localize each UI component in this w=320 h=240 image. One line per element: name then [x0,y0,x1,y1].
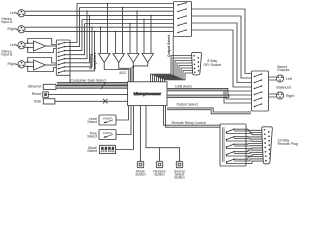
svg-text:Right: Right [8,62,16,66]
svg-text:Outputs: Outputs [277,68,290,72]
svg-text:Input B: Input B [1,52,13,56]
remote relay control bus [164,106,221,128]
wire risers from gain box to top bus [70,4,95,71]
svg-text:Button: Button [135,172,145,176]
svg-text:Remote Plug: Remote Plug [278,142,298,146]
xlr connector output left [269,75,284,82]
svg-text:Output Select: Output Select [177,103,198,107]
op-amp input B right with bypass loop [25,58,56,72]
svg-text:Right: Right [8,27,16,31]
usb audio bus [167,88,252,103]
xlr connector input A left [16,10,25,17]
svg-text:Reset: Reset [32,92,41,96]
node bus lines top [25,4,173,32]
xlr connector output right [269,92,284,99]
svg-text:Input A: Input A [1,20,13,24]
switches inside gain box [58,42,70,74]
summing amplifier 3 [128,54,140,63]
wire GPI to microprocessor [151,56,193,82]
svg-text:0-9/0-F: 0-9/0-F [103,131,113,135]
output relay switch box [252,71,269,111]
output select bus to output relays [167,108,250,114]
wire input A left - [25,14,173,16]
wire input A right + [25,26,173,28]
wire ADC inputs [104,63,148,82]
wire input A left + [25,10,173,12]
ethernet port [43,84,127,89]
time select rotary switch [99,106,131,140]
xlr connector input A right [16,26,25,33]
svg-text:Consumer Gain Select: Consumer Gain Select [71,78,106,82]
svg-text:GPI Socket: GPI Socket [203,63,221,67]
svg-text:Left: Left [286,77,292,81]
mode select dip switch [100,106,134,154]
svg-text:Amplifiers: Amplifiers [93,52,97,69]
xlr connector input B left [16,42,25,49]
GPI d-sub socket [192,52,202,75]
usb port [43,99,127,104]
relay box remote [220,124,246,166]
mode button [137,106,143,168]
source select button [160,148,183,168]
15 way d-sub plug [262,127,273,164]
microprocessor U1 [128,82,167,106]
svg-text:USB Audio: USB Audio [175,84,192,88]
wire bus line 1 [77,3,174,5]
svg-text:Ethernet: Ethernet [28,85,41,89]
svg-text:Select: Select [87,135,97,139]
wire output select control from microprocessor [172,37,174,80]
svg-text:Remote Relay Control: Remote Relay Control [172,121,207,125]
monitor bus [167,95,229,97]
wire bus line 5 [82,19,174,21]
xlr connector input B right [16,61,25,68]
svg-text:USB: USB [34,99,42,103]
gain select switch box [56,40,70,75]
svg-text:Balanced: Balanced [277,86,292,90]
wire input A right - [25,30,173,32]
wire bus line 2 [80,7,174,9]
wire output select to right column [192,9,252,87]
svg-text:0-9/0-F: 0-9/0-F [103,116,113,120]
summing amplifier 2 [113,54,125,63]
svg-text:Right: Right [286,94,294,98]
consumer gain select bus [57,75,128,89]
svg-text:Microprocessor: Microprocessor [134,91,162,96]
wire bus line 6 [85,23,174,25]
restore button [146,106,163,168]
svg-text:Left: Left [10,11,16,15]
svg-text:Button: Button [154,172,164,176]
svg-text:Left: Left [10,43,16,47]
op-amp input B left with bypass loop [25,39,56,53]
svg-text:Select: Select [87,149,97,153]
output select switch box [174,2,192,37]
svg-text:ADC: ADC [119,71,127,75]
wire taps to summing amplifiers [100,3,152,54]
svg-text:Select: Select [87,120,97,124]
reset switch [43,92,128,97]
level select rotary switch [99,106,129,125]
wire relay contacts to 15 way plug [227,129,264,163]
summing amplifier 4 [142,54,154,63]
svg-text:Output Select: Output Select [167,34,171,57]
summing amplifier 1 [99,54,111,63]
svg-text:Button: Button [174,175,184,179]
